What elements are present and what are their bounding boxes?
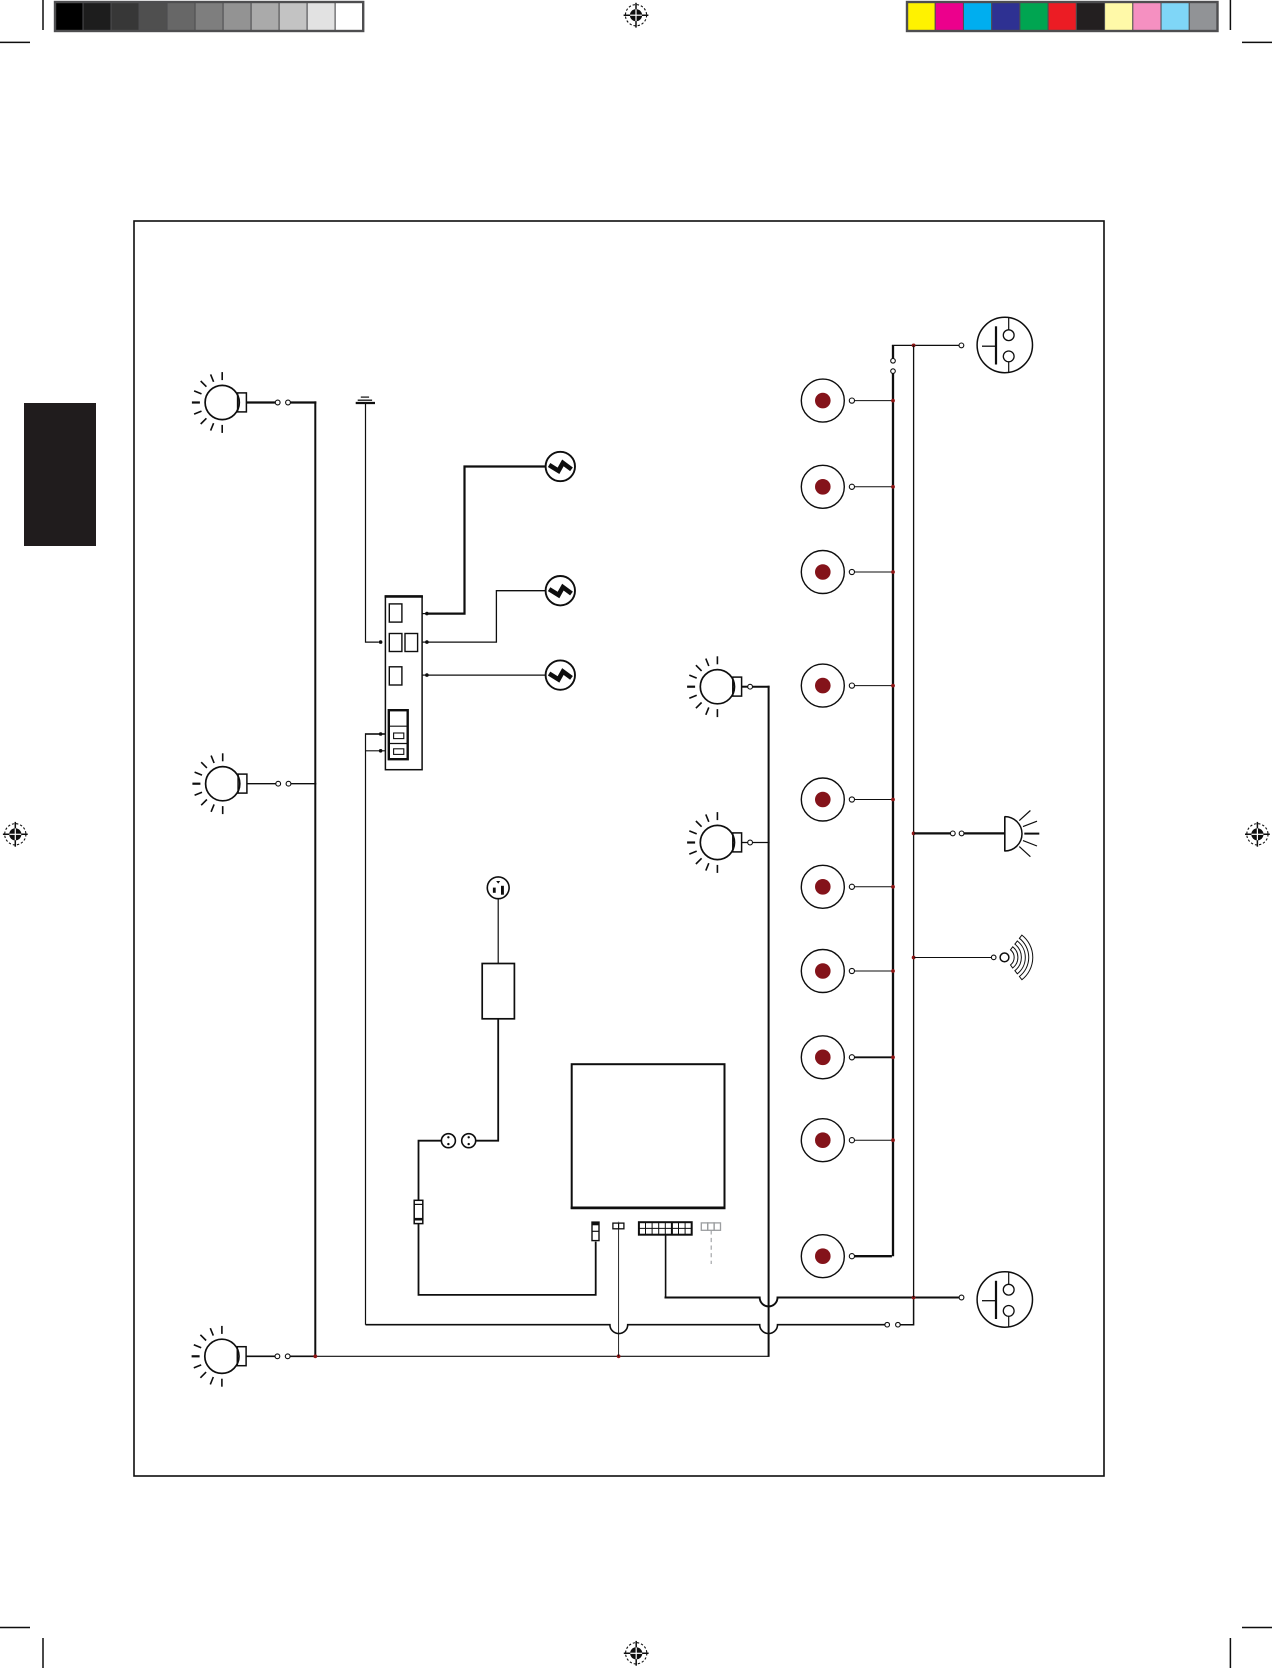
wire LP4 to lamp bus: [753, 686, 770, 688]
black thumb tab: [24, 403, 96, 546]
RCA jack J3: [801, 551, 854, 594]
lamp LP2 middle-left: [192, 753, 247, 814]
node dot horn junction: [912, 832, 916, 836]
RCA jack J2: [801, 465, 854, 508]
lamp LP1 top-left: [192, 372, 247, 433]
registration mark bottom center: [624, 1641, 649, 1666]
wire J9 stub: [854, 1139, 892, 1141]
switch block S1: [385, 596, 423, 769]
wire horn line: [914, 832, 950, 834]
wire CN3 down to line A: [665, 1235, 667, 1297]
connector CN4 (ghost): [701, 1223, 720, 1264]
wire W2 block to motor M2: [429, 591, 546, 642]
wire J6 stub: [854, 886, 892, 888]
wire CN2 down to line C: [618, 1229, 620, 1357]
connector gap circles on line B: [885, 1322, 890, 1327]
registration mark top center: [624, 3, 649, 28]
RCA jack J9: [801, 1119, 854, 1162]
ground symbol: [356, 397, 375, 403]
lamp LP5: [687, 812, 742, 873]
lead circle line A end: [959, 1295, 964, 1300]
wire line A with hop: [665, 1298, 960, 1307]
bottom wire line C: [315, 1355, 768, 1357]
RCA jack J4: [801, 664, 854, 707]
wire vertical lamp bus left: [314, 401, 316, 1356]
connector plug pair CP1: [441, 1134, 475, 1148]
wire W3 block to motor M3: [429, 674, 546, 676]
grayscale calibration strip: [55, 2, 363, 31]
wire buzzer line: [914, 957, 991, 959]
registration mark right: [1245, 822, 1270, 847]
wire fuse to connector CN1: [419, 1224, 596, 1295]
wire LP2 to lamp bus: [291, 783, 317, 785]
horn lead circles: [950, 831, 955, 836]
motor M1: [546, 452, 575, 481]
wire lamp bus right vertical: [768, 686, 770, 1357]
fuse F1: [414, 1200, 423, 1223]
wire J10 stub: [854, 1255, 892, 1257]
wire ground to switch block: [366, 404, 379, 642]
block pin stubs and dots: [379, 612, 429, 753]
wire line B to bus2: [900, 1299, 913, 1325]
buzzer BZ1: [1000, 935, 1033, 980]
AC plug P1: [487, 877, 509, 899]
wire plug to transformer: [497, 899, 499, 964]
bus 1 (thick): [892, 373, 894, 1256]
RCA jack J8: [801, 1036, 854, 1079]
lamp LP4: [687, 656, 742, 717]
color calibration strip: [907, 2, 1218, 31]
connector CN1: [592, 1222, 599, 1241]
lead circle top line: [959, 343, 964, 348]
connector gap circles on bus1: [891, 359, 896, 364]
node dot C2: [617, 1354, 621, 1358]
RCA jack J10: [801, 1235, 854, 1278]
wire J7 stub: [854, 970, 892, 972]
wire LP5 to lamp bus: [753, 842, 770, 844]
speaker connector SC2 bottom: [977, 1272, 1032, 1327]
RCA jack J1: [801, 379, 854, 422]
bottom bus line B with hops: [366, 1325, 885, 1334]
horn HN1: [1005, 811, 1040, 857]
wire block lower pins to bottom bus: [366, 733, 380, 1324]
node dot top line x bus2: [912, 344, 916, 348]
wire J3 stub: [854, 571, 892, 573]
node dot line A x bus2: [912, 1296, 916, 1300]
diagram border frame: [134, 221, 1104, 1476]
wire LP3 to node: [290, 1355, 316, 1357]
wire J2 stub: [854, 486, 892, 488]
wire transformer down to plug pair: [476, 1019, 498, 1141]
wire J4 stub: [854, 685, 892, 687]
speaker connector SC1 top: [977, 317, 1032, 372]
lamp LP3 bottom-left: [192, 1326, 247, 1387]
RCA jack J7: [801, 950, 854, 993]
connector CN3 multi-pin grid: [639, 1222, 692, 1235]
wire J5 stub: [854, 799, 892, 801]
registration mark left: [3, 822, 28, 847]
top line bus1 to speaker connector: [892, 344, 959, 346]
RCA jack J6: [801, 865, 854, 908]
wire plug pair to fuse: [419, 1141, 442, 1201]
wire J1 stub: [854, 400, 892, 402]
buzzer lead circle: [991, 955, 996, 960]
wire W1 block to motor M1: [429, 467, 546, 614]
node dot C1: [313, 1354, 317, 1358]
connector CN2: [613, 1222, 624, 1229]
motor M2: [546, 576, 575, 605]
node dots RCA stubs on bus1: [891, 399, 895, 1142]
transformer T1: [482, 964, 514, 1019]
main PCB box: [572, 1064, 725, 1208]
node dot block pin left1: [379, 640, 383, 644]
RCA jack J5: [801, 778, 854, 821]
node dot buzzer junction: [912, 956, 916, 960]
motor M3: [546, 660, 575, 689]
bus 2 (thin): [913, 345, 915, 1297]
wire LP1 to node bus: [291, 401, 317, 403]
wire J8 stub: [854, 1056, 892, 1058]
